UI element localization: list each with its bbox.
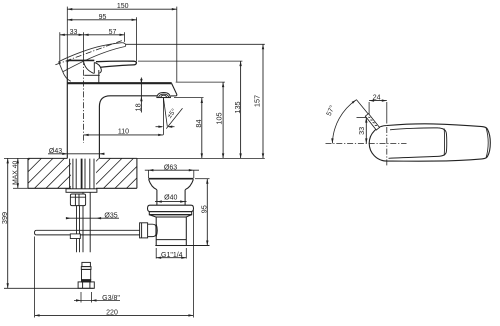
svg-text:57°: 57°: [325, 104, 337, 117]
top view vertical centerline: [386, 127, 388, 166]
svg-text:G1"1/4: G1"1/4: [161, 252, 183, 259]
top view horizontal centerline: [326, 142, 407, 144]
svg-text:Ø40: Ø40: [164, 195, 177, 202]
deck top extension to right dims: [137, 157, 265, 159]
svg-text:95: 95: [99, 14, 107, 21]
dimension 220: [35, 210, 194, 318]
pop-up rod tube: [77, 206, 80, 253]
angle 57 degrees arc: [325, 100, 357, 144]
check valve block: [70, 194, 85, 206]
dimension 135: [233, 61, 242, 158]
svg-text:57: 57: [109, 29, 117, 36]
dimension 24: [369, 95, 387, 124]
pop-up linkage rod: [35, 230, 140, 235]
svg-text:84: 84: [194, 119, 203, 127]
svg-text:±5°: ±5°: [165, 107, 178, 120]
dimension 95 drain: [195, 179, 210, 246]
lever pin detail: [365, 114, 379, 130]
dimension 105: [215, 82, 225, 158]
open handle lever phantom: [59, 43, 126, 82]
spray axis and +-5 degree lines: [156, 98, 183, 135]
extension line y44 open lever tip to 157: [126, 43, 265, 45]
svg-text:135: 135: [233, 101, 242, 113]
svg-text:MAX 40: MAX 40: [12, 160, 19, 184]
svg-text:G3/8": G3/8": [102, 295, 120, 302]
svg-text:220: 220: [106, 309, 118, 316]
washer under deck: [66, 189, 97, 193]
svg-text:Ø43: Ø43: [49, 148, 62, 155]
dimension G1"1/4: [156, 248, 186, 259]
closed handle lever: [96, 61, 136, 67]
G3/8 supply nipple: [78, 262, 94, 288]
open lever centerline: [55, 41, 121, 65]
dimension diameter 35: [66, 212, 119, 219]
svg-text:150: 150: [117, 3, 129, 10]
svg-text:Ø63: Ø63: [164, 164, 177, 171]
dimension MAX 40: [12, 158, 28, 188]
dimension 84: [194, 98, 203, 158]
top view lever inner contour: [389, 128, 447, 158]
drain body: [155, 217, 209, 246]
dimension diameter 43: [48, 148, 105, 155]
top view lever outline: [369, 124, 490, 161]
dimension 57: [84, 29, 125, 59]
deck hatching: [0, 158, 99, 188]
shank through deck hole: [70, 159, 94, 189]
svg-text:33: 33: [357, 127, 366, 135]
dimension 95: [67, 14, 136, 62]
top view cap separation second line: [443, 128, 445, 155]
svg-text:95: 95: [199, 205, 208, 213]
svg-text:157: 157: [252, 95, 261, 107]
extension line y61 closed lever tip to 135: [138, 60, 242, 62]
dimension 18: [134, 78, 143, 113]
open position diagonal line: [356, 100, 379, 128]
svg-text:110: 110: [118, 129, 129, 136]
svg-text:24: 24: [373, 95, 381, 102]
cartridge knuckle: [84, 62, 102, 82]
faucet centerline: [83, 59, 85, 143]
dimension 33: [60, 29, 84, 64]
extension line y97.5 outlet to 84: [174, 97, 204, 99]
dimension 399: [0, 158, 93, 288]
dimension diameter 40: [155, 195, 187, 203]
drain rosette top: [149, 178, 194, 180]
faucet body outline: [67, 60, 157, 158]
drain inlet nut: [140, 223, 158, 238]
dimension 33 top view: [357, 118, 372, 144]
spout top edge: [67, 82, 171, 84]
top view right end second line: [486, 127, 488, 158]
aerator: [156, 93, 171, 98]
dimension G3/8: [74, 292, 120, 303]
countertop deck section: [28, 158, 137, 188]
drain rosette trumpet: [149, 179, 194, 205]
spout front edge: [171, 83, 177, 96]
svg-text:399: 399: [0, 212, 9, 224]
linkage rod fitting: [70, 234, 80, 239]
dimension diameter 63: [145, 164, 199, 178]
supply tube: [83, 192, 90, 252]
dimension 157: [252, 44, 264, 158]
extension line y82 spout top to 105: [176, 81, 225, 83]
svg-text:Ø35: Ø35: [104, 212, 117, 219]
dimension 110: [84, 129, 164, 136]
drain flange: [148, 205, 194, 217]
dimension 150: [67, 3, 177, 82]
svg-text:33: 33: [70, 29, 78, 36]
svg-text:105: 105: [215, 112, 224, 124]
svg-text:18: 18: [134, 103, 143, 111]
